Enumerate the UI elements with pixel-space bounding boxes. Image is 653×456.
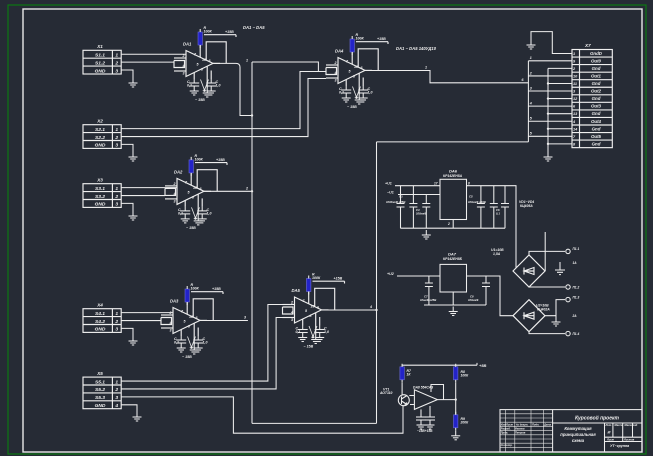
wire X1.1 to DA1 (121, 53, 186, 55)
X2 gnd wire (121, 144, 133, 152)
svg-text:S5.1: S5.1 (95, 379, 105, 385)
svg-text:1: 1 (115, 127, 118, 133)
svg-text:8: 8 (468, 182, 470, 186)
X3 gnd wire (121, 203, 133, 211)
svg-text:3: 3 (115, 395, 118, 401)
diode bridge VD1 (513, 255, 545, 287)
connector X1 (83, 44, 121, 74)
svg-text:100мкФ: 100мкФ (416, 212, 427, 216)
terminal labels bridge1 (573, 247, 580, 290)
wire DA3 output stub (200, 320, 248, 322)
svg-text:Курсовой проект: Курсовой проект (575, 415, 620, 422)
X7 pin numbers (572, 52, 578, 147)
X7 net number ticks (522, 56, 533, 135)
svg-text:АОТ110: АОТ110 (379, 391, 393, 395)
svg-text:Петров: Петров (515, 431, 526, 435)
wire bridge1 out top (529, 251, 565, 255)
connector X5 (83, 371, 121, 409)
svg-text:Х2: Х2 (96, 119, 103, 124)
svg-text:S4.2: S4.2 (95, 319, 105, 325)
wire X3.1 to DA2 (121, 187, 177, 189)
svg-text:1: 1 (246, 59, 248, 63)
svg-text:1,5А: 1,5А (493, 252, 501, 256)
wire R7 to VT1 (401, 383, 403, 395)
svg-text:Лист: Лист (505, 422, 514, 426)
terminal circle 2 (566, 285, 570, 289)
ground X7 top (527, 40, 536, 49)
wire R8 node (455, 383, 457, 415)
svg-text:1000мкФ х25В: 1000мкФ х25В (386, 200, 405, 204)
DA6 right caps (477, 186, 509, 229)
svg-text:Разраб.: Разраб. (501, 427, 511, 431)
svg-text:17: 17 (434, 182, 438, 186)
terminal labels bridge2 (572, 296, 580, 337)
op-amp DA1 (174, 26, 236, 102)
junction dots X7 gnd bus (547, 82, 549, 145)
comparator feedback (431, 385, 444, 400)
svg-text:схема: схема (572, 438, 585, 443)
svg-text:КЦ405А: КЦ405А (520, 204, 533, 208)
wire bridge1 out bottom (529, 286, 565, 288)
svg-text:Gnd: Gnd (592, 111, 601, 116)
svg-text:С3: С3 (399, 195, 403, 199)
ground bridge2 (552, 316, 561, 326)
svg-text:3: 3 (115, 143, 118, 149)
connector X3 (83, 178, 121, 208)
svg-text:Масштаб: Масштаб (625, 423, 638, 427)
svg-text:3: 3 (115, 327, 118, 333)
wire main vertical bus (251, 62, 253, 423)
wire DA7 gnd bus (424, 304, 486, 306)
wire DA7 input (397, 275, 440, 277)
connector X4 (83, 303, 121, 333)
svg-text:1: 1 (115, 379, 118, 385)
svg-text:S5.3: S5.3 (95, 395, 105, 401)
svg-text:S3.1: S3.1 (95, 186, 105, 192)
resistor R8 (454, 364, 458, 383)
svg-text:1: 1 (115, 186, 118, 192)
wire X2.2 to DA4 (121, 79, 326, 137)
svg-text:DA6: DA6 (449, 169, 458, 174)
svg-text:Подп.: Подп. (532, 422, 540, 426)
svg-text:GND: GND (95, 327, 106, 333)
svg-text:DA1: DA1 (183, 42, 192, 47)
svg-text:2: 2 (245, 186, 248, 190)
ground bridge1 (555, 262, 565, 275)
svg-text:Out2: Out2 (591, 89, 602, 94)
svg-text:3: 3 (530, 86, 532, 90)
svg-text:Листов: Листов (623, 438, 635, 442)
svg-text:Лит.: Лит. (605, 423, 613, 427)
regulator DA6 (440, 179, 467, 219)
terminal circle 3 (566, 297, 570, 301)
svg-text:принципиальная: принципиальная (560, 432, 596, 437)
svg-text:Лист: Лист (606, 438, 615, 442)
junction dot DA2 out to bus (251, 190, 253, 192)
diode bridge VD2 (513, 300, 545, 332)
wire X2.1 to DA4 (121, 72, 326, 129)
svg-text:Gnd: Gnd (592, 81, 601, 86)
ground DA7 (449, 307, 458, 316)
svg-text:S1.1: S1.1 (95, 53, 105, 59)
comparator caps (416, 406, 435, 429)
wire X7 GndD loop (531, 32, 572, 54)
DA6 left caps (397, 186, 431, 229)
wire bottom horizontal bus join (252, 422, 377, 424)
svg-text:И: И (608, 430, 611, 435)
svg-text:Дата: Дата (543, 422, 552, 426)
svg-text:S4.1: S4.1 (95, 311, 105, 317)
svg-text:S2.2: S2.2 (95, 135, 105, 141)
svg-text:11: 11 (573, 82, 577, 86)
ground X2 (129, 152, 138, 161)
wire DA6 gnd bus (401, 227, 506, 229)
svg-text:Out5: Out5 (591, 134, 602, 139)
svg-text:200К: 200К (460, 421, 470, 425)
svg-text:П1.4: П1.4 (573, 332, 580, 336)
svg-text:S1.2: S1.2 (95, 60, 105, 66)
ground X1 (129, 78, 138, 87)
svg-text:4: 4 (369, 305, 372, 309)
phototransistor VT1 (398, 395, 409, 406)
wire X4.2 to DA3 loop (121, 320, 161, 322)
svg-text:Out4: Out4 (591, 119, 602, 124)
svg-text:GND: GND (95, 143, 106, 149)
wire DA6 output (467, 186, 517, 268)
op-amp DA3 (161, 283, 223, 359)
svg-text:Коммутация: Коммутация (564, 426, 592, 431)
wire DA6 minus stub (398, 194, 440, 196)
svg-text:DA1 − DA5: DA1 − DA5 (243, 25, 265, 30)
svg-text:S3.2: S3.2 (95, 194, 105, 200)
svg-text:2: 2 (114, 387, 118, 393)
svg-text:2: 2 (114, 135, 118, 141)
svg-text:Gnd: Gnd (592, 66, 601, 71)
ground X3 (129, 211, 138, 220)
resistor R9 (454, 412, 458, 431)
svg-text:Out0: Out0 (591, 58, 602, 63)
junction dot output (455, 398, 457, 400)
svg-text:Gnd: Gnd (592, 141, 601, 146)
svg-text:−15В+15В: −15В+15В (417, 429, 433, 433)
terminal circle 4 (566, 331, 570, 335)
wire X7 left bus (527, 61, 529, 142)
svg-text:П1.2: П1.2 (573, 286, 580, 290)
wire bus top to DA4 loop (252, 62, 326, 72)
svg-text:УТ−группа: УТ−группа (610, 444, 629, 448)
svg-text:КР142ЕН5А: КР142ЕН5А (443, 174, 463, 178)
DA7 cap labels (420, 295, 479, 303)
resistor R7 (400, 364, 404, 383)
svg-text:КР142ЕН8Б: КР142ЕН8Б (443, 257, 463, 261)
svg-text:DA2: DA2 (174, 170, 183, 175)
svg-text:КЦ402А: КЦ402А (537, 308, 550, 312)
svg-text:2: 2 (114, 319, 118, 325)
wire bridge2 out right (545, 300, 565, 316)
op-amp DA2 (165, 154, 227, 230)
DA6 cap labels (386, 195, 500, 216)
svg-text:100К: 100К (461, 374, 470, 378)
svg-text:100мкФ х16В: 100мкФ х16В (468, 200, 486, 204)
svg-text:2: 2 (114, 60, 118, 66)
wire bus to X7 row12 (377, 141, 529, 143)
svg-text:П1.1: П1.1 (573, 247, 580, 251)
svg-text:2: 2 (447, 222, 450, 226)
X1 gnd wire (121, 70, 133, 78)
svg-text:Масса: Масса (615, 423, 624, 427)
svg-text:−U1: −U1 (387, 190, 394, 194)
svg-text:DA1 − DA5 140УД10: DA1 − DA5 140УД10 (396, 46, 437, 51)
op-amp DA4 (326, 33, 388, 109)
title block left grid (500, 410, 553, 452)
svg-text:2: 2 (529, 71, 532, 75)
junction dot DA1 line to bus (251, 114, 253, 116)
svg-text:4: 4 (114, 403, 118, 409)
DA7 left cap (425, 276, 433, 305)
svg-text:4: 4 (529, 102, 532, 106)
wire X3.2 to DA2 loop (121, 195, 165, 197)
wire DA7 box gnd (452, 292, 454, 305)
wire DA5 output to bus (322, 309, 377, 311)
X4 gnd wire (121, 328, 133, 336)
pin labels DA6 (434, 182, 470, 227)
wire X5.1 to DA5 (121, 305, 282, 382)
wire DA4 output to X7 (365, 71, 528, 83)
svg-text:1: 1 (530, 56, 532, 60)
svg-text:2А: 2А (572, 314, 578, 318)
svg-text:Out3: Out3 (591, 104, 602, 109)
svg-text:№ докум.: № докум. (516, 422, 529, 426)
svg-text:С5: С5 (469, 195, 473, 199)
title block table (500, 410, 642, 452)
svg-text:Gnd: Gnd (592, 96, 601, 101)
wire DA7 output (467, 276, 514, 316)
svg-text:Х1: Х1 (96, 44, 103, 49)
wire bridge1 ac right (544, 232, 546, 271)
wire X5.2 to DA5 (121, 318, 282, 389)
wire DA6 box gnd (452, 220, 454, 229)
svg-text:S5.2: S5.2 (95, 387, 105, 393)
DA7 right cap (482, 276, 490, 305)
svg-text:Х5: Х5 (96, 371, 103, 376)
svg-text:3: 3 (115, 68, 118, 74)
op-amp DA5 (283, 273, 345, 349)
svg-text:GND: GND (95, 403, 106, 409)
ground R9 (451, 431, 460, 440)
svg-text:1: 1 (115, 311, 118, 317)
connector X7 table (572, 50, 612, 148)
svg-text:DA5: DA5 (292, 288, 301, 293)
regulator DA7 (440, 264, 467, 292)
svg-text:1: 1 (573, 52, 575, 56)
wire X1.2 to DA1 loop (121, 61, 174, 63)
wire X4.1 to DA3 (121, 312, 173, 314)
svg-text:S2.1: S2.1 (95, 127, 105, 133)
wire X5.3 to comparator (121, 397, 403, 433)
svg-text:GND: GND (95, 68, 106, 74)
svg-text:Н.контр.: Н.контр. (501, 443, 513, 447)
connector X2 (83, 119, 121, 149)
junction dot DA5 out to right bus (375, 309, 377, 311)
svg-text:Gnd: Gnd (592, 126, 601, 131)
svg-text:Х4: Х4 (96, 303, 103, 308)
svg-text:+U2: +U2 (387, 272, 394, 276)
wire right vertical bus (376, 142, 378, 424)
wire DA2 output (204, 190, 252, 192)
svg-text:Х7: Х7 (584, 43, 591, 48)
svg-text:GND: GND (95, 202, 106, 208)
wire DA6 input (395, 185, 440, 187)
svg-text:1: 1 (425, 66, 427, 70)
svg-text:DA4: DA4 (335, 49, 344, 54)
svg-text:+5В: +5В (479, 363, 487, 368)
ground DA6 (422, 230, 431, 239)
svg-text:+U1: +U1 (385, 182, 392, 186)
svg-text:100мкФ: 100мкФ (468, 298, 479, 302)
ground X5 (133, 412, 142, 421)
svg-text:0,1: 0,1 (496, 212, 500, 216)
ground X4 (129, 336, 138, 345)
wire DA1 output down (213, 63, 252, 115)
svg-text:3: 3 (244, 316, 246, 320)
X7 row labels (590, 51, 603, 147)
wire bridge2 out bottom (529, 332, 565, 334)
svg-text:Out1: Out1 (591, 73, 602, 78)
wire X7 out stubs (528, 61, 572, 136)
X5 gnd wire (121, 405, 137, 412)
svg-text:П1.3: П1.3 (573, 296, 580, 300)
comparator DA8 (409, 390, 455, 410)
svg-text:Иванов: Иванов (515, 427, 525, 431)
svg-text:Х3: Х3 (96, 178, 103, 183)
svg-text:Пров.: Пров. (501, 431, 509, 435)
svg-text:DA3: DA3 (170, 299, 179, 304)
svg-text:3: 3 (115, 202, 118, 208)
svg-text:10мкФ х25В: 10мкФ х25В (420, 298, 436, 302)
svg-text:DA7: DA7 (448, 252, 457, 257)
svg-text:1А: 1А (573, 261, 578, 265)
svg-text:1: 1 (115, 53, 118, 59)
svg-text:DA8 554СА3: DA8 554СА3 (413, 385, 433, 389)
+5V rail (402, 363, 477, 365)
svg-text:GndD: GndD (590, 51, 603, 56)
svg-text:2: 2 (114, 194, 118, 200)
ground X7 bus (544, 152, 553, 161)
terminal circle 1 (566, 249, 570, 253)
wire X7 gnd tie bus (548, 68, 572, 152)
